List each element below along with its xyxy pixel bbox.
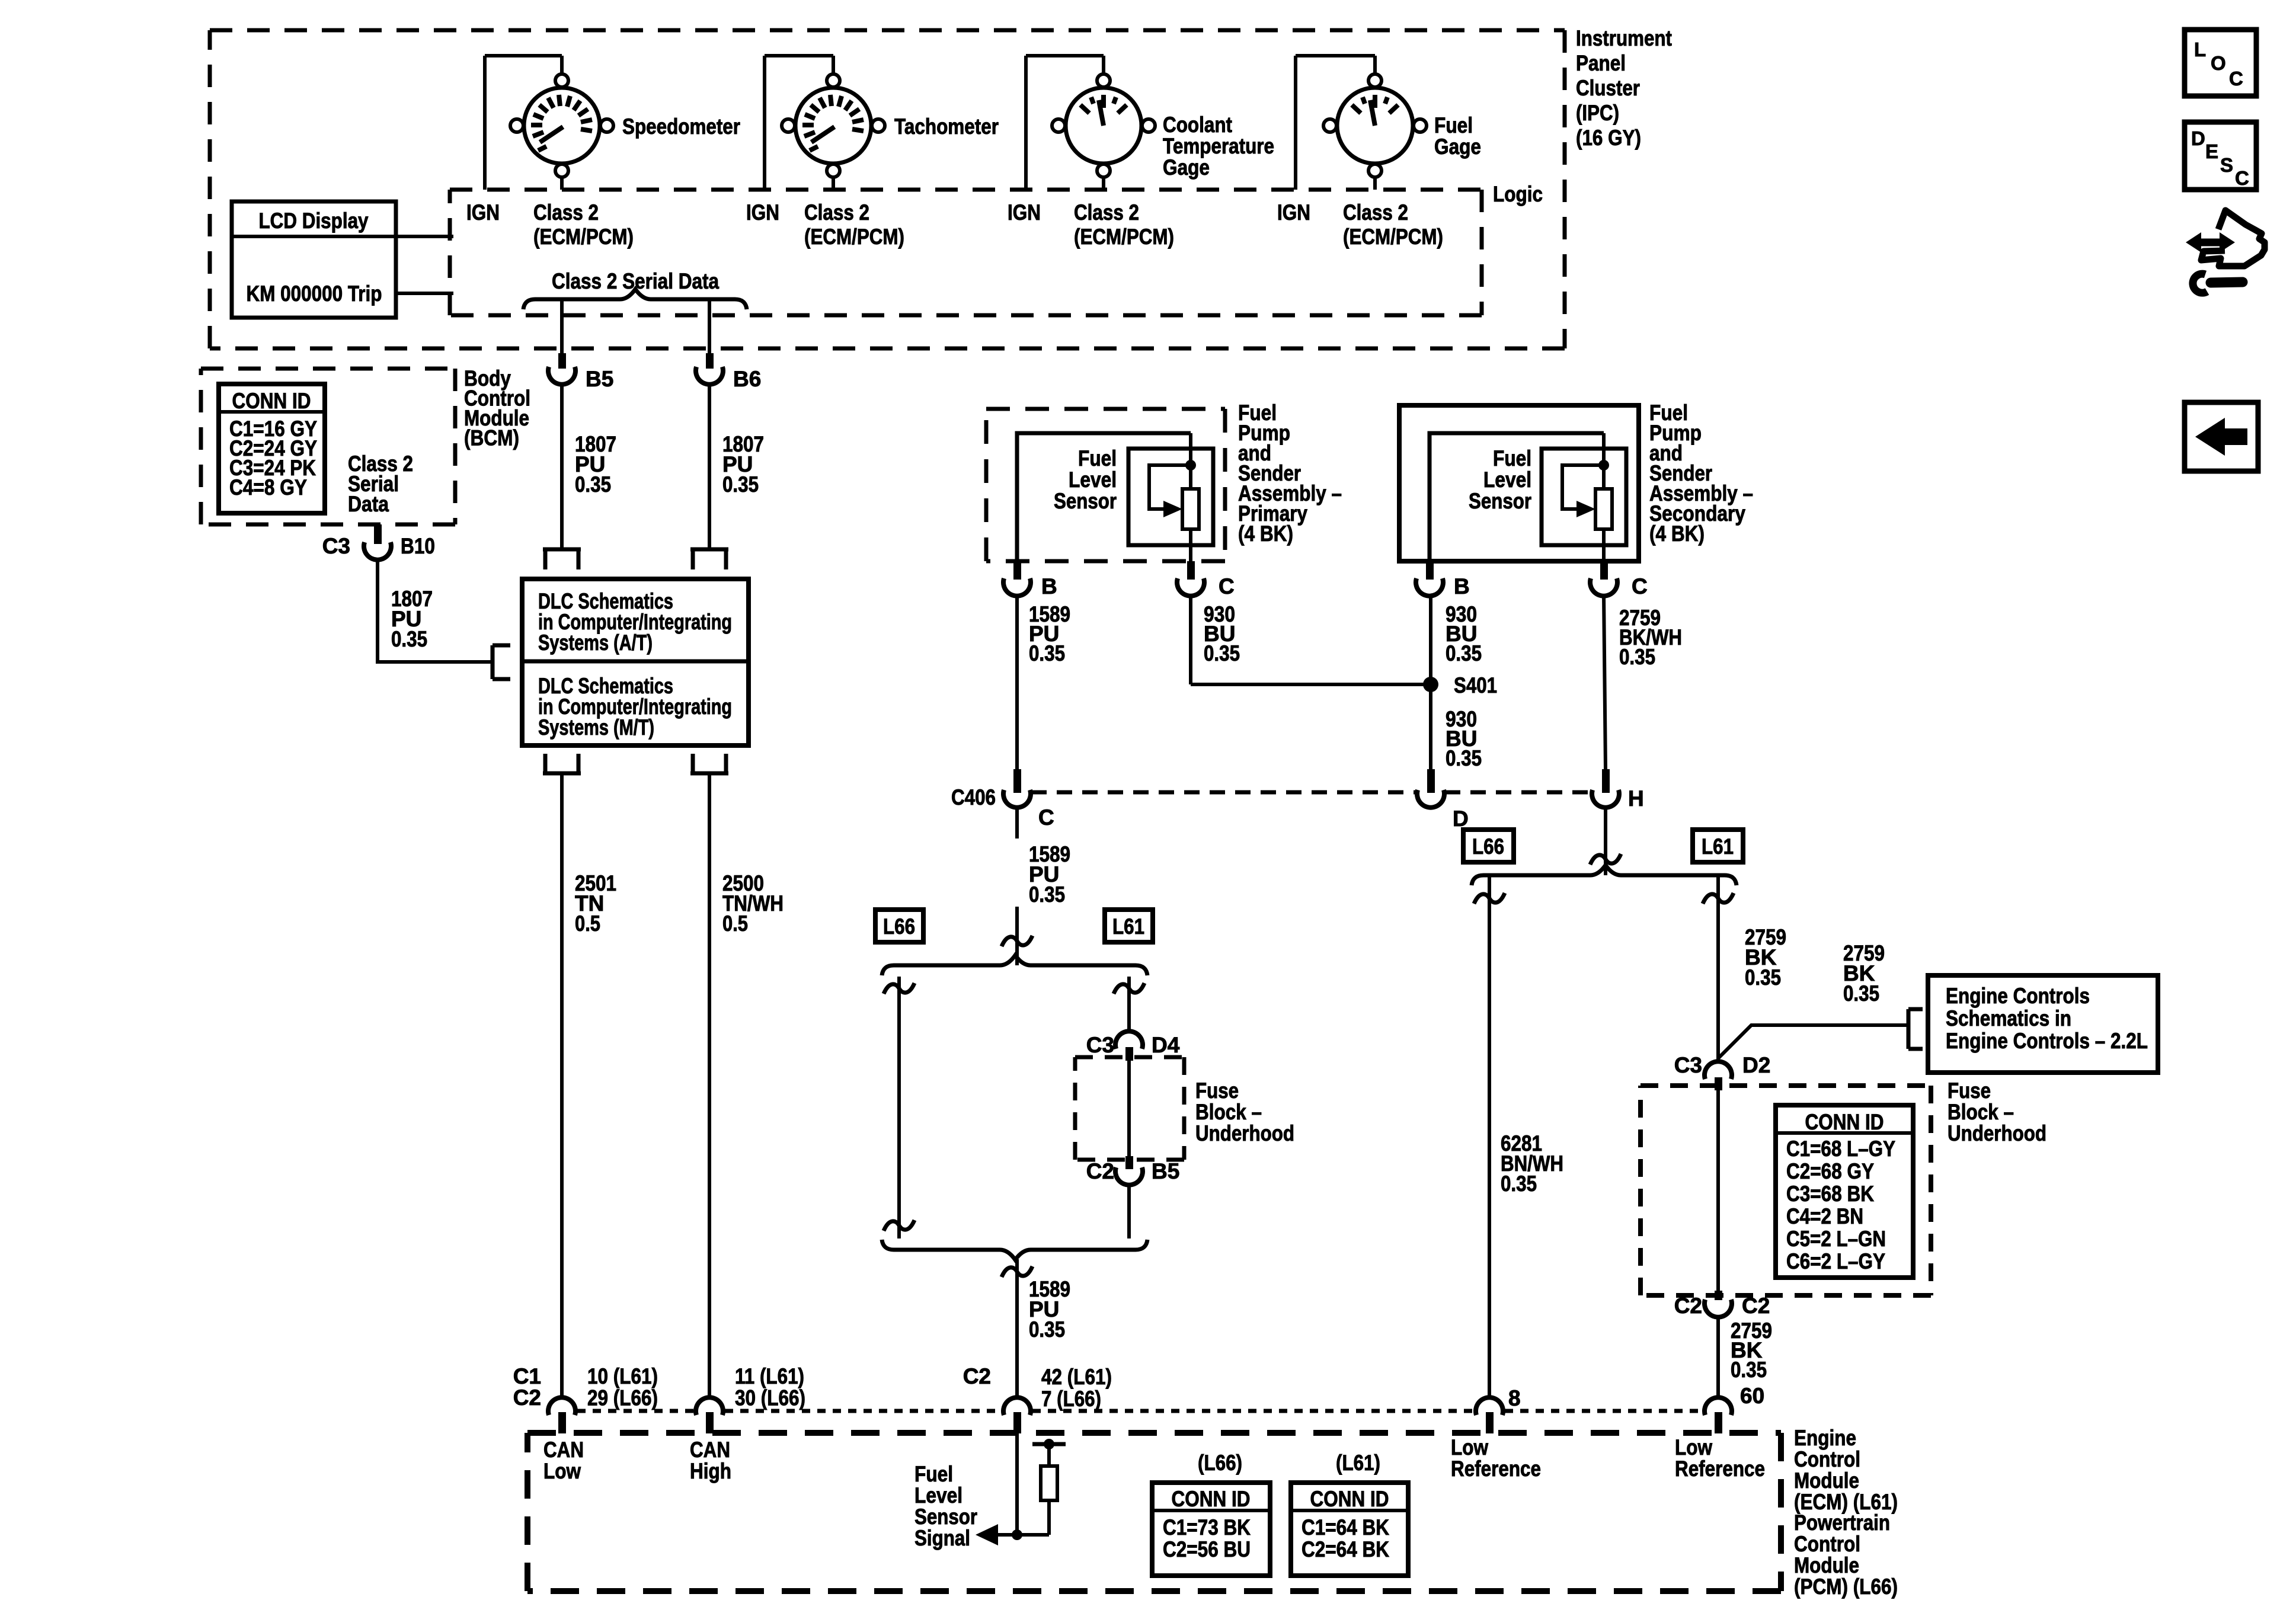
svg-text:0.35: 0.35 (1745, 965, 1781, 990)
svg-text:Class 2: Class 2 (1074, 200, 1139, 225)
svg-text:D: D (1453, 806, 1469, 831)
svg-text:Systems (M/T): Systems (M/T) (538, 715, 654, 740)
svg-text:CAN: CAN (690, 1438, 730, 1462)
svg-text:H: H (1628, 786, 1644, 811)
svg-text:Fuse: Fuse (1195, 1078, 1239, 1103)
svg-text:KM 000000 Trip: KM 000000 Trip (247, 281, 382, 306)
svg-text:B10: B10 (401, 534, 435, 558)
svg-text:L61: L61 (1112, 914, 1144, 939)
svg-text:Systems (A/T): Systems (A/T) (538, 631, 653, 655)
svg-text:(PCM) (L66): (PCM) (L66) (1794, 1574, 1898, 1599)
svg-text:C406: C406 (951, 785, 996, 809)
svg-text:O: O (2211, 52, 2226, 74)
svg-text:C1=64 BK: C1=64 BK (1302, 1515, 1389, 1540)
svg-text:L: L (2194, 39, 2206, 60)
svg-text:Sensor: Sensor (1054, 489, 1117, 513)
svg-text:B6: B6 (733, 367, 761, 391)
svg-text:0.35: 0.35 (1446, 746, 1482, 770)
svg-text:7 (L66): 7 (L66) (1041, 1387, 1101, 1411)
svg-text:Module: Module (1794, 1468, 1859, 1493)
svg-text:11 (L61): 11 (L61) (735, 1364, 804, 1388)
svg-text:Level: Level (1069, 468, 1117, 492)
svg-text:Temperature: Temperature (1163, 134, 1274, 158)
svg-text:L66: L66 (1472, 834, 1504, 859)
svg-text:Level: Level (1483, 468, 1531, 492)
svg-text:CONN ID: CONN ID (1805, 1110, 1884, 1134)
svg-text:C2: C2 (1742, 1294, 1770, 1318)
svg-text:C2: C2 (963, 1364, 991, 1388)
svg-text:Class 2: Class 2 (1343, 200, 1408, 225)
svg-text:Level: Level (914, 1483, 962, 1508)
svg-text:Panel: Panel (1576, 51, 1626, 75)
svg-text:Fuse: Fuse (1948, 1078, 1991, 1103)
svg-text:Reference: Reference (1675, 1457, 1765, 1481)
svg-text:Engine: Engine (1794, 1426, 1856, 1450)
svg-text:Logic: Logic (1493, 182, 1543, 206)
svg-text:C: C (1632, 574, 1648, 599)
svg-text:Block –: Block – (1948, 1100, 2014, 1124)
svg-text:Gage: Gage (1434, 135, 1481, 159)
svg-text:30 (L66): 30 (L66) (735, 1386, 805, 1410)
svg-text:(ECM/PCM): (ECM/PCM) (1074, 225, 1174, 249)
svg-text:D2: D2 (1742, 1053, 1770, 1077)
svg-text:Sensor: Sensor (1469, 489, 1531, 513)
svg-text:C2: C2 (1086, 1159, 1114, 1183)
svg-text:D4: D4 (1152, 1033, 1180, 1057)
svg-text:Underhood: Underhood (1195, 1121, 1294, 1145)
svg-text:C1: C1 (513, 1364, 541, 1388)
svg-text:C2=56 BU: C2=56 BU (1163, 1537, 1251, 1561)
svg-text:Data: Data (348, 492, 389, 516)
svg-text:C3: C3 (322, 534, 350, 558)
svg-text:C1=68 L–GY: C1=68 L–GY (1786, 1137, 1895, 1161)
svg-text:Control: Control (1794, 1532, 1860, 1556)
svg-text:Low: Low (1675, 1435, 1712, 1460)
svg-text:0.35: 0.35 (1204, 641, 1240, 665)
svg-text:Block –: Block – (1195, 1100, 1262, 1124)
svg-text:Fuel: Fuel (1078, 446, 1117, 471)
svg-text:Gage: Gage (1163, 155, 1210, 180)
svg-text:CONN ID: CONN ID (1172, 1487, 1251, 1511)
svg-text:(BCM): (BCM) (464, 426, 519, 450)
svg-text:Fuel: Fuel (914, 1462, 953, 1486)
svg-text:0.35: 0.35 (1731, 1358, 1767, 1382)
svg-text:C: C (1038, 805, 1054, 830)
svg-text:E: E (2205, 140, 2218, 162)
svg-text:C4=8 GY: C4=8 GY (229, 475, 307, 500)
svg-text:10 (L61): 10 (L61) (587, 1364, 658, 1388)
svg-text:IGN: IGN (1277, 200, 1310, 225)
svg-text:(ECM/PCM): (ECM/PCM) (1343, 225, 1443, 249)
svg-text:(4 BK): (4 BK) (1649, 521, 1705, 546)
svg-text:C4=2 BN: C4=2 BN (1786, 1204, 1863, 1228)
svg-text:Instrument: Instrument (1576, 26, 1672, 50)
svg-text:B5: B5 (1152, 1159, 1179, 1183)
svg-text:0.35: 0.35 (391, 627, 427, 651)
svg-text:Class 2: Class 2 (804, 200, 869, 225)
svg-text:CONN ID: CONN ID (1310, 1487, 1389, 1511)
svg-text:High: High (690, 1459, 731, 1483)
svg-text:(L61): (L61) (1336, 1451, 1380, 1475)
svg-text:CAN: CAN (543, 1438, 584, 1462)
svg-text:(IPC): (IPC) (1576, 101, 1619, 125)
svg-text:Cluster: Cluster (1576, 76, 1640, 100)
svg-text:CONN ID: CONN ID (232, 389, 311, 413)
svg-text:C2=68 GY: C2=68 GY (1786, 1159, 1874, 1183)
svg-text:Module: Module (1794, 1553, 1859, 1577)
svg-text:Powertrain: Powertrain (1794, 1510, 1890, 1535)
svg-text:Tachometer: Tachometer (894, 114, 999, 139)
svg-text:Low: Low (543, 1459, 581, 1483)
svg-text:0.35: 0.35 (575, 472, 611, 497)
svg-text:Speedometer: Speedometer (622, 114, 740, 139)
svg-text:S401: S401 (1454, 673, 1497, 697)
svg-text:0.35: 0.35 (1029, 1317, 1065, 1342)
svg-text:0.35: 0.35 (722, 472, 759, 497)
svg-text:Low: Low (1451, 1435, 1488, 1460)
svg-text:(L66): (L66) (1198, 1451, 1242, 1475)
svg-text:C3: C3 (1674, 1053, 1702, 1077)
svg-text:D: D (2191, 127, 2205, 149)
svg-text:C: C (2229, 68, 2243, 89)
svg-text:L61: L61 (1702, 834, 1734, 859)
svg-text:IGN: IGN (1008, 200, 1041, 225)
svg-text:B5: B5 (586, 367, 613, 391)
svg-text:C: C (1219, 574, 1235, 599)
svg-text:Reference: Reference (1451, 1457, 1541, 1481)
svg-text:60: 60 (1740, 1384, 1764, 1408)
svg-text:C2: C2 (513, 1385, 541, 1410)
svg-text:B: B (1454, 574, 1470, 599)
svg-text:(16 GY): (16 GY) (1576, 126, 1641, 150)
svg-text:C2: C2 (1674, 1294, 1702, 1318)
svg-text:C1=73 BK: C1=73 BK (1163, 1515, 1251, 1540)
svg-text:Sensor: Sensor (914, 1505, 977, 1529)
svg-text:S: S (2220, 154, 2233, 176)
svg-text:(ECM/PCM): (ECM/PCM) (804, 225, 904, 249)
svg-text:Schematics in: Schematics in (1946, 1006, 2071, 1030)
svg-text:0.35: 0.35 (1843, 981, 1879, 1006)
svg-text:B: B (1041, 574, 1057, 599)
svg-text:0.5: 0.5 (722, 911, 748, 936)
svg-text:0.5: 0.5 (575, 911, 600, 936)
svg-text:IGN: IGN (466, 200, 500, 225)
svg-text:0.35: 0.35 (1029, 882, 1065, 907)
svg-text:Underhood: Underhood (1948, 1121, 2046, 1145)
svg-text:Coolant: Coolant (1163, 113, 1232, 137)
svg-text:0.35: 0.35 (1619, 645, 1655, 669)
svg-text:L66: L66 (883, 914, 915, 939)
svg-text:Class 2: Class 2 (533, 200, 599, 225)
svg-text:Control: Control (1794, 1447, 1860, 1471)
svg-text:(ECM/PCM): (ECM/PCM) (533, 225, 634, 249)
svg-text:8: 8 (1508, 1386, 1521, 1410)
svg-text:Engine Controls: Engine Controls (1946, 984, 2090, 1008)
svg-text:C: C (2235, 167, 2249, 189)
svg-text:C2=64 BK: C2=64 BK (1302, 1537, 1389, 1561)
svg-text:Signal: Signal (914, 1526, 970, 1550)
svg-text:C3: C3 (1086, 1033, 1114, 1057)
svg-text:(4 BK): (4 BK) (1238, 521, 1293, 546)
svg-text:0.35: 0.35 (1501, 1172, 1537, 1196)
svg-text:Fuel: Fuel (1493, 446, 1531, 471)
svg-text:C5=2 L–GN: C5=2 L–GN (1786, 1227, 1886, 1251)
svg-text:42 (L61): 42 (L61) (1041, 1365, 1112, 1389)
svg-text:Engine Controls – 2.2L: Engine Controls – 2.2L (1946, 1029, 2148, 1053)
svg-text:0.35: 0.35 (1446, 641, 1482, 665)
svg-text:LCD Display: LCD Display (259, 209, 369, 233)
svg-text:IGN: IGN (746, 200, 779, 225)
svg-text:C6=2 L–GY: C6=2 L–GY (1786, 1249, 1885, 1273)
svg-text:Fuel: Fuel (1434, 113, 1473, 137)
svg-text:0.35: 0.35 (1029, 641, 1065, 665)
svg-text:C3=68 BK: C3=68 BK (1786, 1182, 1874, 1206)
svg-text:29 (L66): 29 (L66) (587, 1386, 658, 1410)
